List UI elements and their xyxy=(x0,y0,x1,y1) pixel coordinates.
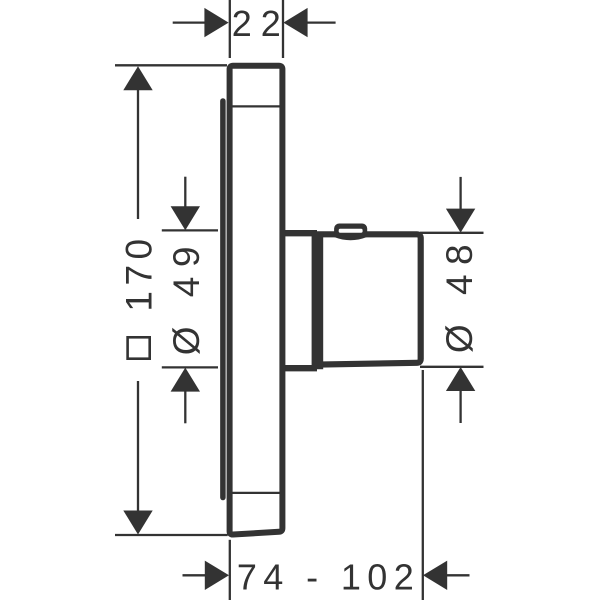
svg-text:2 2: 2 2 xyxy=(232,3,281,44)
svg-text:Ø 49: Ø 49 xyxy=(166,237,207,355)
svg-text:Ø 48: Ø 48 xyxy=(439,235,480,353)
svg-text:170: 170 xyxy=(118,233,159,311)
svg-text:74 - 102: 74 - 102 xyxy=(237,557,420,598)
